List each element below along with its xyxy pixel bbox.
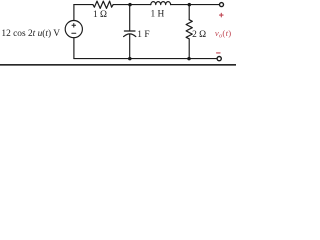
svg-text:1 H: 1 H: [150, 9, 164, 19]
polarity plus sign red at top terminal: [220, 13, 224, 17]
wire: between resistor and inductor (through node): [113, 4, 151, 6]
node junction dot top 2ohm tap: [188, 3, 192, 7]
resistor R 2ohm bottom lead wire: [188, 39, 190, 59]
terminal circle top right: [220, 3, 224, 7]
node junction dot top capacitor tap: [128, 3, 132, 7]
wire: top-left segment from source corner to resistor: [74, 4, 93, 6]
polarity minus sign red at bottom terminal: [217, 52, 221, 54]
svg-text:1 F: 1 F: [137, 30, 149, 40]
svg-text:2 Ω: 2 Ω: [192, 30, 206, 40]
voltage source top stub wire: [73, 5, 75, 21]
svg-text:12 cos 2t u(t) V: 12 cos 2t u(t) V: [1, 28, 60, 39]
voltage source minus sign: [72, 32, 76, 34]
voltage source bottom stub wire: [73, 38, 75, 59]
capacitor C 1F bottom curved plate: [124, 34, 136, 37]
wire: bottom rail: [74, 58, 217, 60]
voltage source V1 circle: [65, 21, 82, 38]
capacitor bottom lead wire: [129, 34, 131, 59]
svg-text:1 Ω: 1 Ω: [93, 10, 107, 20]
inductor L 1H coil: [151, 2, 171, 5]
svg-text:vo(t): vo(t): [215, 28, 232, 40]
node junction dot bottom 2ohm: [187, 57, 191, 61]
resistor R 2ohm zigzag: [186, 20, 192, 39]
capacitor C 1F top plate: [124, 30, 135, 32]
resistor R 2ohm top lead wire: [188, 5, 190, 20]
resistor R 1ohm zigzag: [93, 1, 113, 8]
terminal circle bottom right: [217, 57, 221, 61]
voltage source plus sign: [72, 24, 76, 28]
bottom page rule: [0, 64, 236, 66]
node junction dot bottom capacitor: [128, 57, 132, 61]
wire: inductor to top terminal: [171, 4, 219, 6]
capacitor top lead wire: [129, 5, 131, 31]
